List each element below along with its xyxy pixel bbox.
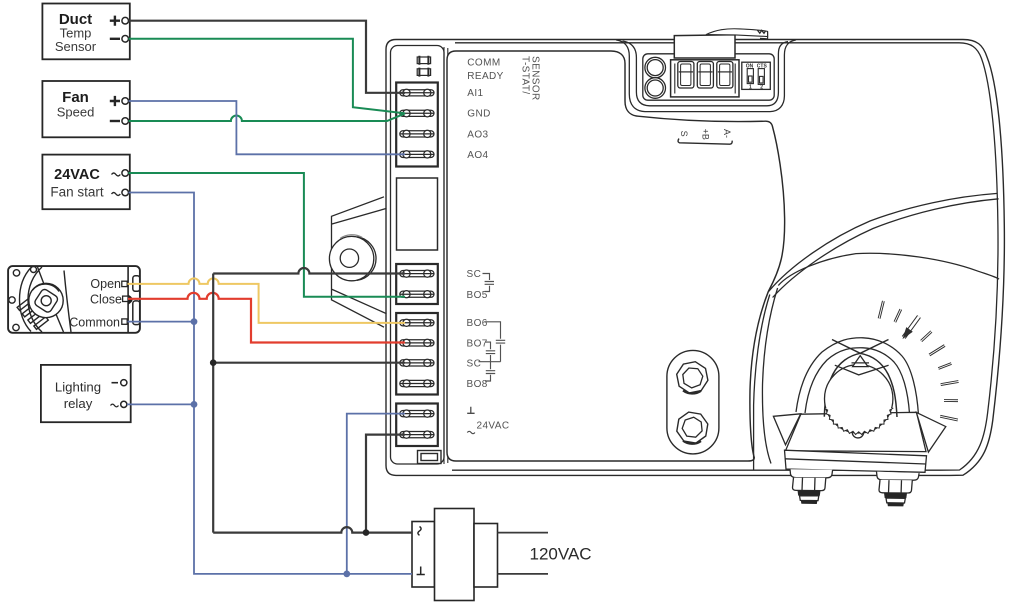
wire black duct temp plus to AI1 bbox=[129, 21, 406, 93]
serrated shaft circle bbox=[825, 365, 893, 433]
svg-text:A-: A- bbox=[722, 129, 732, 138]
svg-text:Fan: Fan bbox=[62, 89, 89, 106]
open terminal square bbox=[122, 281, 127, 286]
wire blue 24vac earth terminal to junction bbox=[347, 414, 405, 574]
svg-text:READY: READY bbox=[467, 71, 503, 82]
terminal GND bbox=[400, 110, 434, 117]
clamp base plate bbox=[785, 450, 927, 472]
comm terminal block bbox=[671, 60, 739, 97]
svg-text:+B: +B bbox=[701, 129, 711, 140]
indicator circle 2 bbox=[645, 78, 666, 99]
terminal BO8 bbox=[400, 380, 434, 387]
actuator blade diagonal 1 bbox=[38, 267, 64, 332]
bracket SC-BO5 with contact bbox=[483, 274, 495, 292]
arch over clamp scale bbox=[778, 253, 999, 285]
clamp inner arch dome outer bbox=[796, 338, 919, 415]
wire green 24vac fan start to BO5 bbox=[129, 173, 406, 297]
wire blue fan speed plus to AO4 bbox=[129, 101, 406, 154]
junction dot blue transformer earth bbox=[343, 571, 350, 578]
fuse mark top 1 bbox=[417, 56, 430, 65]
actuator blade diagonal 2 bbox=[64, 271, 71, 333]
cover crimp marks bbox=[758, 30, 766, 33]
junction dot black SC branch bbox=[210, 359, 217, 366]
shoulder band arc upper bbox=[769, 193, 998, 291]
comm block pole 3 bbox=[717, 62, 733, 89]
clamp left wing bbox=[773, 414, 800, 445]
mounting bracket boss side arc bbox=[357, 237, 376, 281]
wire black SC net horizontal to SC group2 with hop bbox=[213, 268, 405, 273]
svg-text:Sensor: Sensor bbox=[55, 39, 97, 54]
fuse mark top 2 bbox=[417, 68, 430, 77]
duct temp sensor plus terminal bbox=[110, 16, 120, 26]
u-bolt v notch bbox=[835, 365, 889, 375]
scale tick 1 bbox=[879, 301, 883, 319]
recess outer rim bbox=[616, 40, 796, 112]
scale tick 4 bbox=[921, 332, 931, 342]
actuator motor bore bbox=[41, 296, 51, 306]
scale tick 2 bbox=[895, 309, 901, 322]
svg-text:BO8: BO8 bbox=[467, 379, 488, 390]
mounting bracket boss inner circle bbox=[340, 249, 358, 267]
svg-text:S: S bbox=[679, 131, 689, 137]
terminal SC-b bbox=[400, 359, 434, 366]
terminal BO6 bbox=[400, 319, 434, 326]
waterfall fold line 2 bbox=[754, 295, 770, 471]
underline bracket for S +B A- bbox=[678, 139, 732, 145]
u-bolt apex triangle bbox=[853, 356, 868, 367]
actuator close notch bbox=[128, 295, 132, 305]
common terminal square bbox=[122, 319, 127, 324]
svg-text:T-STAT/: T-STAT/ bbox=[520, 56, 531, 95]
bolt right washer and thread bbox=[884, 493, 907, 498]
fan speed box bbox=[42, 81, 129, 137]
svg-text:2: 2 bbox=[760, 85, 763, 91]
svg-text:Common: Common bbox=[69, 315, 120, 329]
bolt right hex bbox=[879, 480, 912, 493]
damper actuator body bbox=[8, 266, 140, 333]
secondary wire top bbox=[498, 532, 549, 534]
cover top plate bbox=[706, 29, 768, 37]
duct temp sensor box bbox=[42, 4, 129, 60]
svg-text:24VAC: 24VAC bbox=[54, 167, 100, 183]
bolt left shoulder bbox=[790, 469, 833, 478]
t-stat connector cover tab bbox=[674, 35, 735, 58]
svg-text:24VAC: 24VAC bbox=[477, 421, 510, 432]
24vac fan start box bbox=[42, 155, 129, 210]
mounting bracket boss outer bbox=[329, 236, 373, 280]
wire black SC net bottom to transformer with hop bbox=[213, 527, 412, 532]
actuator screw circles bbox=[13, 270, 19, 276]
actuator motor square bbox=[33, 288, 59, 314]
hex nut top octagon bbox=[677, 362, 708, 393]
bracket BO6-SC outer with contact bbox=[484, 322, 505, 362]
terminal group 1 border (AI1 GND AO3 AO4) bbox=[396, 83, 438, 167]
transformer core box bbox=[435, 509, 475, 601]
svg-text:BO6: BO6 bbox=[467, 318, 488, 329]
comm block pole 2 bbox=[697, 62, 713, 89]
wire black branch to 24vac hot terminal bbox=[366, 435, 405, 533]
svg-text:SC: SC bbox=[467, 269, 482, 280]
hex nut bottom octagon bbox=[677, 412, 708, 443]
terminal group 3 border (BO6 BO7 SC BO8) bbox=[396, 313, 438, 395]
svg-text:Speed: Speed bbox=[57, 105, 95, 120]
controller case inner line bbox=[452, 43, 998, 470]
cover right end bbox=[760, 31, 768, 38]
wire blue actuator common bbox=[128, 321, 195, 323]
terminal AI1 bbox=[400, 89, 434, 96]
recess base plate bbox=[643, 54, 774, 100]
scale tick 5 bbox=[929, 346, 944, 356]
terminal BO5 bbox=[400, 291, 434, 298]
front panel face outline bbox=[447, 51, 785, 461]
actuator gear inner arc bbox=[33, 284, 60, 291]
lighting relay box bbox=[41, 365, 131, 422]
wire green duct temp minus to GND bbox=[129, 39, 406, 114]
terminal strip right double line bbox=[444, 47, 448, 464]
bolt left hex bbox=[793, 478, 826, 491]
dip switch slot 2 bbox=[758, 69, 764, 85]
dip switch labels ON CTS bbox=[746, 63, 768, 90]
svg-text:COMM: COMM bbox=[467, 58, 500, 69]
actuator fin 3 bbox=[28, 311, 42, 324]
clamp body block bbox=[786, 412, 927, 451]
terminal group 2 border (SC BO5) bbox=[396, 264, 438, 304]
actuator gear outer bbox=[29, 283, 63, 317]
bolt left washer and thread bbox=[798, 491, 821, 496]
scale tick 9 bbox=[940, 416, 958, 420]
recess inner rim bbox=[623, 41, 789, 106]
secondary wire bottom bbox=[498, 573, 549, 575]
terminal COM bbox=[400, 410, 434, 417]
bolt right shoulder bbox=[877, 472, 920, 481]
svg-text:Close: Close bbox=[90, 292, 122, 306]
controller case outer outline bbox=[386, 40, 1004, 476]
indicator circle 1 bbox=[645, 57, 666, 78]
wire red actuator close to BO7 with hops bbox=[128, 293, 405, 343]
scale tick 3 bbox=[904, 317, 919, 338]
transformer primary box bbox=[412, 522, 435, 588]
wire yellow actuator open to BO6 with hops bbox=[128, 278, 406, 323]
24vac fan start tilde terminal 2 bbox=[112, 193, 121, 196]
svg-text:Lighting: Lighting bbox=[55, 380, 101, 395]
symbol ac tilde (group4) bbox=[467, 431, 475, 433]
terminal BO7 bbox=[400, 339, 434, 346]
svg-text:SENSOR: SENSOR bbox=[530, 56, 541, 101]
shoulder band arc lower bbox=[773, 199, 999, 298]
bracket BO7-SC inner with contact bbox=[486, 342, 496, 362]
mounting bracket boss top arc bbox=[340, 235, 362, 239]
actuator fin 1 bbox=[17, 299, 30, 310]
fan speed plus terminal bbox=[110, 96, 120, 106]
svg-text:BO7: BO7 bbox=[467, 338, 488, 349]
actuator end cap line bbox=[127, 267, 129, 333]
actuator terminal tab 1 bbox=[133, 276, 140, 292]
bracket SC-BO8 with contact bbox=[479, 362, 501, 381]
hex nut stadium bbox=[667, 350, 719, 454]
wire black SC net vertical bbox=[212, 274, 214, 533]
svg-text:Open: Open bbox=[90, 277, 121, 291]
scale tick 7 bbox=[941, 382, 959, 385]
svg-text:AO4: AO4 bbox=[467, 150, 488, 161]
duct temp sensor minus terminal bbox=[110, 38, 120, 40]
terminal AO4 bbox=[400, 151, 434, 158]
label S +B A- (rotated) bbox=[679, 129, 732, 140]
svg-text:Fan start: Fan start bbox=[50, 185, 104, 200]
scale tick 6 bbox=[938, 364, 951, 369]
junction dot blue lighting relay bbox=[191, 401, 198, 408]
symbol earth (group4) bbox=[467, 407, 474, 414]
blank slot between groups bbox=[397, 178, 438, 250]
u-bolt gothic left bbox=[824, 340, 888, 417]
svg-text:AO3: AO3 bbox=[467, 129, 488, 140]
svg-text:1: 1 bbox=[749, 85, 752, 91]
scale tick 8 bbox=[944, 399, 958, 402]
actuator fin 4 bbox=[34, 317, 48, 330]
terminal HOT24 bbox=[400, 431, 434, 438]
wire blue 24vac fan start to transformer earth bbox=[129, 193, 413, 574]
svg-text:120VAC: 120VAC bbox=[530, 545, 592, 564]
svg-text:SC: SC bbox=[467, 359, 482, 370]
wire green fan speed minus to GND with hop bbox=[129, 113, 406, 121]
shaft bottom tab bbox=[852, 432, 864, 438]
terminal SC-a bbox=[400, 270, 434, 277]
shaft serration teeth bbox=[824, 408, 893, 434]
terminal AO3 bbox=[400, 130, 434, 137]
wire blue lighting relay bottom bbox=[127, 403, 194, 405]
mounting bracket flange bbox=[332, 197, 387, 327]
transformer secondary box bbox=[474, 524, 498, 588]
clamp base mid line bbox=[785, 459, 926, 464]
transformer earth mark bbox=[417, 567, 425, 575]
transformer ac tilde mark bbox=[418, 527, 421, 536]
close terminal square bbox=[123, 296, 128, 301]
junction dot black transformer branch bbox=[363, 529, 370, 536]
actuator terminal tab 2 bbox=[133, 301, 140, 325]
svg-text:GND: GND bbox=[467, 109, 490, 120]
comm block pole 1 bbox=[678, 62, 694, 89]
24vac fan start tilde terminal 1 bbox=[112, 173, 121, 176]
lighting relay terminal 2 bbox=[111, 404, 119, 407]
fan speed minus terminal bbox=[110, 120, 120, 122]
terminal group 4 border (24VAC) bbox=[396, 404, 438, 447]
dip switch block bbox=[742, 62, 771, 89]
wire black SC net branch to SC group3 bbox=[213, 362, 405, 364]
actuator left cap arcs bbox=[20, 268, 32, 332]
lighting relay terminal 1 bbox=[112, 382, 119, 384]
actuator fin 2 bbox=[22, 305, 35, 317]
u-bolt gothic right bbox=[832, 340, 897, 418]
svg-text:AI1: AI1 bbox=[467, 88, 483, 99]
junction dot blue common bbox=[191, 318, 198, 325]
svg-text:relay: relay bbox=[64, 396, 93, 411]
clamp inner arch dome inner bbox=[805, 348, 910, 414]
bottom small connector bbox=[418, 451, 442, 464]
terminal strip outline bbox=[391, 46, 445, 465]
dip switch slot 1 bbox=[747, 69, 753, 84]
waterfall fold line 3 bbox=[762, 288, 777, 464]
clamp right wing bbox=[916, 412, 945, 452]
